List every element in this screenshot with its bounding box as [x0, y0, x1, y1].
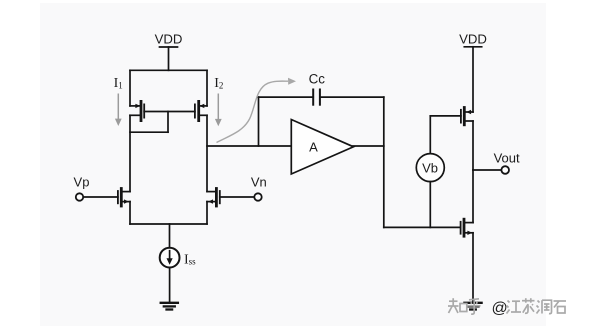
glyph 润 — [537, 300, 552, 313]
wire M3 drain down to M1 drain — [129, 115, 131, 191]
transistor M2 (diff pair right NMOS) — [207, 189, 254, 225]
wire Vb top to M5 gate — [430, 115, 461, 117]
wire Vout stub — [473, 169, 501, 171]
terminal Vn — [254, 193, 261, 200]
svg-text:Vout: Vout — [494, 150, 520, 165]
node VDD rail wire — [130, 69, 207, 71]
wire tail to current source — [169, 224, 171, 248]
wire right branch from rail to M4 source — [206, 70, 208, 106]
glyph 石 — [554, 301, 567, 313]
terminal Vout — [501, 166, 509, 174]
wire Vout node down to M6 drain — [472, 170, 474, 223]
wire amp output down to M6 gate — [383, 97, 385, 227]
svg-text:A: A — [309, 139, 318, 154]
VDD supply symbol (second stage) — [464, 47, 481, 112]
svg-text:Vp: Vp — [74, 175, 90, 190]
svg-text:VDD: VDD — [155, 32, 183, 47]
wire mirror gates — [144, 111, 195, 113]
current source Iss — [160, 248, 180, 268]
glyph 乎 — [468, 299, 481, 314]
VDD supply symbol (first stage) — [160, 47, 178, 70]
svg-text:@: @ — [492, 300, 508, 317]
wire M4 drain down to M2 drain — [206, 115, 208, 191]
annotation arrow I1 — [115, 94, 122, 127]
ground — [161, 303, 178, 310]
wire M6 source down — [472, 233, 474, 303]
wire M5 drain to Vout node — [472, 121, 474, 170]
transistor M4 (PMOS mirror output) — [195, 101, 207, 120]
transistor M5 (output PMOS) — [461, 108, 473, 125]
capacitor Cc — [313, 90, 320, 105]
wire Iss to ground — [169, 268, 171, 303]
wire second stage gate rail — [384, 226, 461, 228]
transistor M1 (diff pair left NMOS) — [83, 189, 130, 225]
annotation arrow I2 — [215, 94, 222, 127]
svg-text:VDD: VDD — [459, 32, 487, 47]
wire Cc right lead to amp output vertical — [320, 96, 384, 98]
ground (output stage) — [464, 303, 481, 310]
voltage source Vb — [416, 116, 444, 227]
annotation curved arrow to Cc — [217, 78, 297, 143]
transistor M6 (output NMOS) — [461, 219, 473, 236]
watermark 知乎 @江苏润石 — [448, 298, 481, 314]
svg-text:Vb: Vb — [422, 160, 438, 175]
glyph 苏 — [522, 298, 535, 313]
terminal Vp — [76, 193, 83, 200]
wire Cc tap from output node wire — [259, 97, 314, 146]
wire amp output — [353, 145, 384, 147]
svg-text:Cc: Cc — [309, 71, 326, 86]
wire left branch from rail to M3 source — [129, 70, 131, 106]
transistor M3 (PMOS mirror, diode-connected) — [130, 101, 144, 120]
wire diode connection gate to drain of M3 — [130, 112, 168, 133]
op-amp A (second gain stage) — [291, 120, 353, 175]
svg-text:Vn: Vn — [251, 175, 267, 190]
glyph 知 — [448, 298, 467, 313]
wire diff pair tail — [130, 223, 207, 225]
wire first-stage output node to amp input — [207, 145, 291, 147]
glyph 江 — [507, 301, 522, 314]
